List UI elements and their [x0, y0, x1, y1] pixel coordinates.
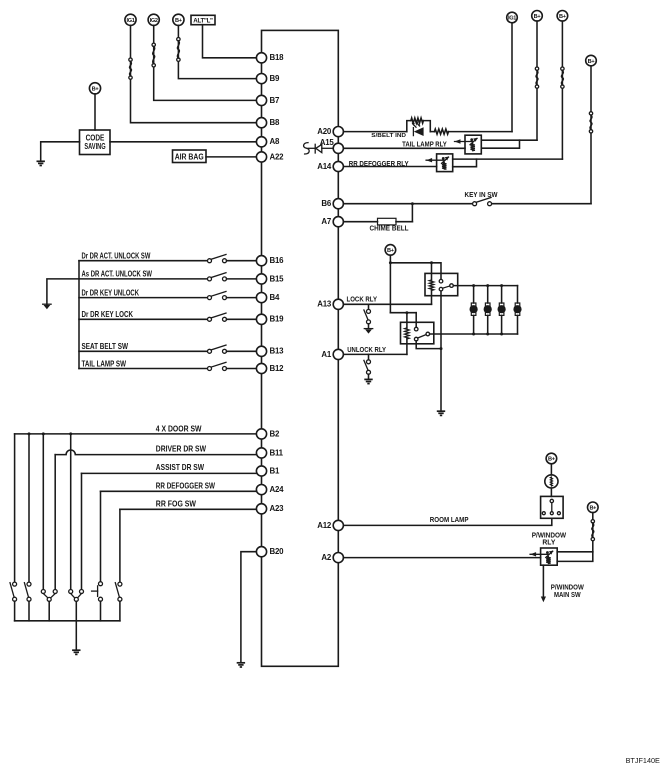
svg-text:A2: A2	[321, 553, 331, 562]
svg-text:B1: B1	[270, 466, 280, 475]
svg-text:B8: B8	[270, 118, 280, 127]
lock relay coil	[429, 280, 433, 290]
lock relay contacts	[439, 279, 443, 283]
svg-text:TAIL LAMP RLY: TAIL LAMP RLY	[402, 142, 447, 149]
wire switch bank ground rail	[15, 620, 120, 622]
LED S/BELT IND	[412, 128, 414, 136]
door switch 1	[13, 582, 17, 586]
pin B7	[256, 95, 266, 105]
wire rail to ground	[75, 621, 77, 650]
switch below A13 line	[368, 304, 370, 309]
pin A2	[333, 553, 343, 563]
wire assist dr sw drop	[81, 473, 83, 589]
wire p/window relay to B+ feed	[557, 551, 593, 553]
terminal B+ (p/window)	[588, 502, 599, 513]
switch KEY IN SW	[473, 202, 477, 206]
svg-text:Dr DR ACT. UNLOCK SW: Dr DR ACT. UNLOCK SW	[82, 251, 151, 261]
wire key in switch to B+	[492, 203, 591, 205]
wire+switch As DR ACT. UNLOCK SW	[79, 278, 208, 280]
ground (unlock switch)	[364, 378, 372, 380]
terminal ALT L	[191, 15, 215, 24]
svg-text:B7: B7	[270, 96, 280, 105]
svg-text:A12: A12	[317, 521, 332, 530]
switch below A1 line	[368, 354, 370, 359]
wire door switch drop 3	[42, 434, 44, 590]
wire unlock coil to A1	[406, 339, 408, 355]
wire B+ down to p/window relay	[592, 513, 594, 552]
terminal IG2 (top left)	[148, 14, 159, 25]
pin A22	[256, 152, 266, 162]
pin B19	[256, 314, 266, 324]
pin B13	[256, 346, 266, 356]
wire to unlock relay coil	[406, 313, 408, 328]
wire IG2 to B7	[154, 25, 257, 100]
svg-text:RR DEFOGGER SW: RR DEFOGGER SW	[156, 481, 215, 491]
svg-text:RR FOG SW: RR FOG SW	[156, 499, 196, 509]
wire B+ down to key in switch	[590, 66, 592, 204]
svg-text:A8: A8	[270, 137, 280, 146]
terminal B+ (defogger)	[557, 11, 568, 22]
svg-text:A14: A14	[317, 162, 332, 171]
relay UNLOCK RLY box	[401, 322, 434, 344]
wire door switch drop 4	[70, 434, 72, 590]
wire lock relay common to ground	[440, 291, 442, 411]
wire 4X DOOR SW line to B2	[15, 433, 257, 435]
relay LOCK RLY box	[425, 273, 458, 295]
wire rr fog sw drop	[119, 509, 121, 581]
fuse on B+ wire	[177, 38, 180, 41]
wire A15 to tail lamp relay	[343, 147, 465, 149]
rr fog switch	[118, 582, 122, 586]
svg-text:B+: B+	[559, 14, 567, 20]
wire A13 lock rly line	[344, 303, 432, 305]
svg-text:B16: B16	[270, 256, 285, 265]
door switch 2	[27, 582, 31, 586]
assist door double switch	[69, 590, 73, 594]
wire chime bell junction to B6 line	[411, 204, 413, 222]
svg-text:S/BELT IND: S/BELT IND	[371, 133, 406, 139]
wire room lamp to A12	[343, 518, 552, 525]
resistor R2 (S/BELT series)	[434, 129, 448, 134]
wire lamp to switch box	[550, 488, 552, 496]
svg-text:LOCK RLY: LOCK RLY	[347, 297, 378, 304]
svg-text:A20: A20	[317, 127, 332, 136]
svg-text:B6: B6	[321, 199, 331, 208]
wire code saving to ground	[41, 142, 80, 161]
block CODE SAVING U1	[80, 130, 111, 155]
pin B15	[256, 274, 266, 284]
wire defogger relay to B+ feed	[453, 158, 563, 160]
wire+switch Dr DR KEY LOCK	[79, 318, 208, 320]
svg-text:B13: B13	[270, 347, 285, 356]
wire common vertical for lock/seat/tail switches	[78, 261, 80, 369]
ground (switch bank)	[72, 649, 80, 651]
wire ALT L to B18	[203, 25, 257, 58]
svg-text:A24: A24	[270, 485, 285, 494]
pin B11	[256, 448, 266, 458]
wire RR DEFOGGER SW line to A24	[101, 490, 257, 492]
pin B16	[256, 256, 266, 266]
wire+switch SEAT BELT SW	[79, 350, 208, 352]
svg-text:BTJF140E: BTJF140E	[626, 756, 660, 765]
wire B+ rail to lock relay	[390, 263, 441, 280]
svg-text:A22: A22	[270, 152, 285, 161]
wire A14 to rr defogger relay	[343, 166, 436, 168]
wire door switch drop 2	[28, 434, 30, 582]
svg-text:B+: B+	[548, 457, 556, 463]
rr defogger push switch	[99, 582, 103, 586]
wire B+ to code saving box	[94, 94, 96, 130]
svg-text:4 X DOOR SW: 4 X DOOR SW	[156, 424, 202, 434]
pin B4	[256, 293, 266, 303]
wire IG1 right down to S/BELT line	[511, 23, 513, 132]
wire+switch TAIL LAMP SW	[79, 368, 208, 370]
svg-text:RR DEFOGGER RLY: RR DEFOGGER RLY	[349, 161, 409, 168]
ground (switch common)	[43, 303, 51, 305]
wire to unlock relay contact	[415, 313, 417, 327]
wire lock relay to motors top rail	[453, 285, 517, 287]
wire to lock relay coil	[431, 263, 433, 280]
wire tail lamp relay to B+ feed	[481, 139, 537, 141]
wire unlock relay to motors bottom rail	[430, 333, 518, 335]
svg-text:B+: B+	[534, 14, 542, 20]
wire ASSIST DR SW line to B1	[82, 472, 257, 474]
wire A7 through chime bell	[343, 221, 377, 223]
ground (B20)	[237, 662, 245, 664]
pin A1	[333, 349, 343, 359]
svg-text:DRIVER DR SW: DRIVER DR SW	[156, 444, 206, 454]
terminal B+ (top left)	[173, 14, 184, 25]
svg-text:B12: B12	[270, 364, 285, 373]
fuse on key-in B+ wire	[589, 112, 592, 115]
wire+switch Dr DR KEY UNLOCK	[79, 297, 208, 299]
fuse on IG1 wire	[129, 58, 132, 61]
pin A20	[333, 127, 343, 137]
svg-text:SEAT BELT SW: SEAT BELT SW	[82, 341, 129, 351]
svg-text:P/WINDOW: P/WINDOW	[532, 532, 567, 539]
svg-text:IG2: IG2	[150, 18, 158, 24]
terminal IG1 (right)	[507, 12, 518, 23]
wire B+ down to tail lamp relay	[536, 21, 538, 140]
pin B9	[256, 74, 266, 84]
svg-text:Dr DR KEY UNLOCK: Dr DR KEY UNLOCK	[82, 287, 140, 297]
door lock motor M4	[517, 286, 519, 303]
relay RR DEFOGGER RLY	[437, 154, 453, 172]
unlock relay contacts	[414, 327, 418, 331]
svg-text:A7: A7	[321, 217, 331, 226]
svg-text:ALT"L": ALT"L"	[193, 17, 213, 24]
unlock relay coil	[405, 328, 409, 339]
door lock motor M1	[473, 286, 475, 303]
terminal B+ (tail lamp)	[532, 11, 543, 22]
svg-text:B2: B2	[270, 429, 280, 438]
wire driver dr sw drop	[54, 455, 56, 590]
driver door double switch	[41, 590, 45, 594]
wire unlock common to ground vertical	[416, 341, 441, 349]
svg-text:TAIL LAMP SW: TAIL LAMP SW	[82, 358, 127, 368]
svg-text:CHIME BELL: CHIME BELL	[370, 226, 410, 233]
wire DRIVER DR SW line to B11	[55, 450, 256, 455]
wire door switch drop 1	[14, 434, 16, 582]
svg-text:UNLOCK RLY: UNLOCK RLY	[347, 347, 386, 354]
svg-text:KEY IN SW: KEY IN SW	[465, 192, 498, 199]
pin A14	[333, 161, 343, 171]
svg-text:MAIN SW: MAIN SW	[554, 592, 581, 599]
resistor (S/BELT parallel branch)	[407, 121, 411, 132]
wire B20 to ground	[241, 552, 257, 663]
terminal B+ (door lock)	[385, 245, 396, 256]
wire rr defogger sw drop	[100, 491, 102, 581]
pin A13	[333, 299, 343, 309]
room lamp switch box	[541, 496, 564, 518]
pin A23	[256, 504, 266, 514]
svg-text:Dr DR KEY LOCK: Dr DR KEY LOCK	[82, 309, 134, 319]
arrow to p/window main switch	[542, 565, 544, 596]
wire B+ down to defogger relay	[561, 21, 563, 159]
ground (door lock relays)	[437, 410, 445, 412]
wire A20 to IG1 feed	[343, 131, 407, 133]
svg-text:P/WINDOW: P/WINDOW	[551, 584, 584, 591]
terminal B+ (room lamp)	[546, 453, 557, 464]
wire B+ to B9	[178, 25, 256, 78]
pin A7	[333, 217, 343, 227]
pin A12	[333, 520, 343, 530]
svg-text:IG1: IG1	[126, 18, 134, 24]
block AIR BAG	[173, 150, 207, 163]
wire IG1 to B8	[131, 25, 257, 122]
pin A8	[256, 137, 266, 147]
svg-text:A13: A13	[317, 300, 332, 309]
svg-text:B15: B15	[270, 274, 285, 283]
pin B2	[256, 429, 266, 439]
wire B+ to lamp	[550, 464, 552, 475]
wire air bag to A22	[206, 156, 257, 158]
svg-text:B+: B+	[175, 18, 183, 24]
wire A2 to p/window relay	[343, 557, 540, 559]
fuse on tail lamp B+ wire	[535, 67, 538, 70]
wire A1 unlock rly line	[344, 353, 407, 355]
svg-text:B+: B+	[92, 87, 100, 93]
svg-text:A23: A23	[270, 504, 285, 513]
pin B12	[256, 363, 266, 373]
pin A24	[256, 485, 266, 495]
svg-text:B+: B+	[589, 506, 597, 512]
fuse on IG2 wire	[152, 43, 155, 46]
wire ground branch from switch common	[47, 279, 79, 304]
wire B+ main vertical	[389, 255, 391, 313]
pin B6	[333, 199, 343, 209]
terminal IG1 (top left)	[125, 14, 136, 25]
svg-text:IG1: IG1	[508, 16, 516, 22]
svg-text:ROOM LAMP: ROOM LAMP	[430, 517, 469, 524]
svg-text:ASSIST DR SW: ASSIST DR SW	[156, 462, 204, 472]
wire+switch Dr DR ACT. UNLOCK SW	[79, 260, 208, 262]
pin A15	[333, 143, 343, 153]
svg-text:B+: B+	[588, 59, 596, 65]
svg-text:B+: B+	[387, 248, 395, 254]
chime bell	[378, 218, 397, 225]
svg-text:A1: A1	[321, 350, 331, 359]
relay TAIL LAMP RLY	[465, 135, 481, 154]
svg-text:B18: B18	[270, 53, 285, 62]
terminal B+ (key in sw)	[586, 55, 597, 66]
svg-text:B20: B20	[270, 547, 285, 556]
pin B18	[256, 53, 266, 63]
svg-text:RLY: RLY	[542, 540, 555, 547]
wire B+ to unlock relay feed	[390, 312, 416, 314]
svg-text:As DR ACT. UNLOCK SW: As DR ACT. UNLOCK SW	[82, 269, 153, 279]
node ECU outline rectangle	[262, 30, 339, 666]
wire lock coil to A13	[431, 290, 433, 304]
relay P/WINDOW RLY	[541, 548, 558, 565]
svg-text:AIR BAG: AIR BAG	[175, 153, 204, 162]
ground (lock switch)	[364, 328, 372, 330]
squib symbol (air bag) at A15	[304, 143, 310, 154]
lamp ROOM LAMP bulb	[545, 475, 558, 488]
svg-text:B11: B11	[270, 448, 284, 457]
pin B8	[256, 118, 266, 128]
pin B1	[256, 466, 266, 476]
fuse on p/window B+ wire	[591, 520, 594, 523]
door lock motor M3	[501, 286, 503, 303]
pin B20	[256, 547, 266, 557]
ground (code saving)	[37, 160, 45, 162]
fuse on defogger B+ wire	[561, 67, 564, 70]
svg-text:SAVING: SAVING	[84, 142, 105, 151]
door lock motor M2	[487, 286, 489, 303]
svg-text:B19: B19	[270, 315, 285, 324]
svg-text:B9: B9	[270, 74, 280, 83]
svg-text:B4: B4	[270, 293, 280, 302]
terminal B+ (code saving)	[89, 83, 100, 94]
wire code saving to A8	[110, 141, 257, 143]
wire RR FOG SW line to A23	[120, 508, 257, 510]
wire B6 to key in switch	[343, 203, 472, 205]
